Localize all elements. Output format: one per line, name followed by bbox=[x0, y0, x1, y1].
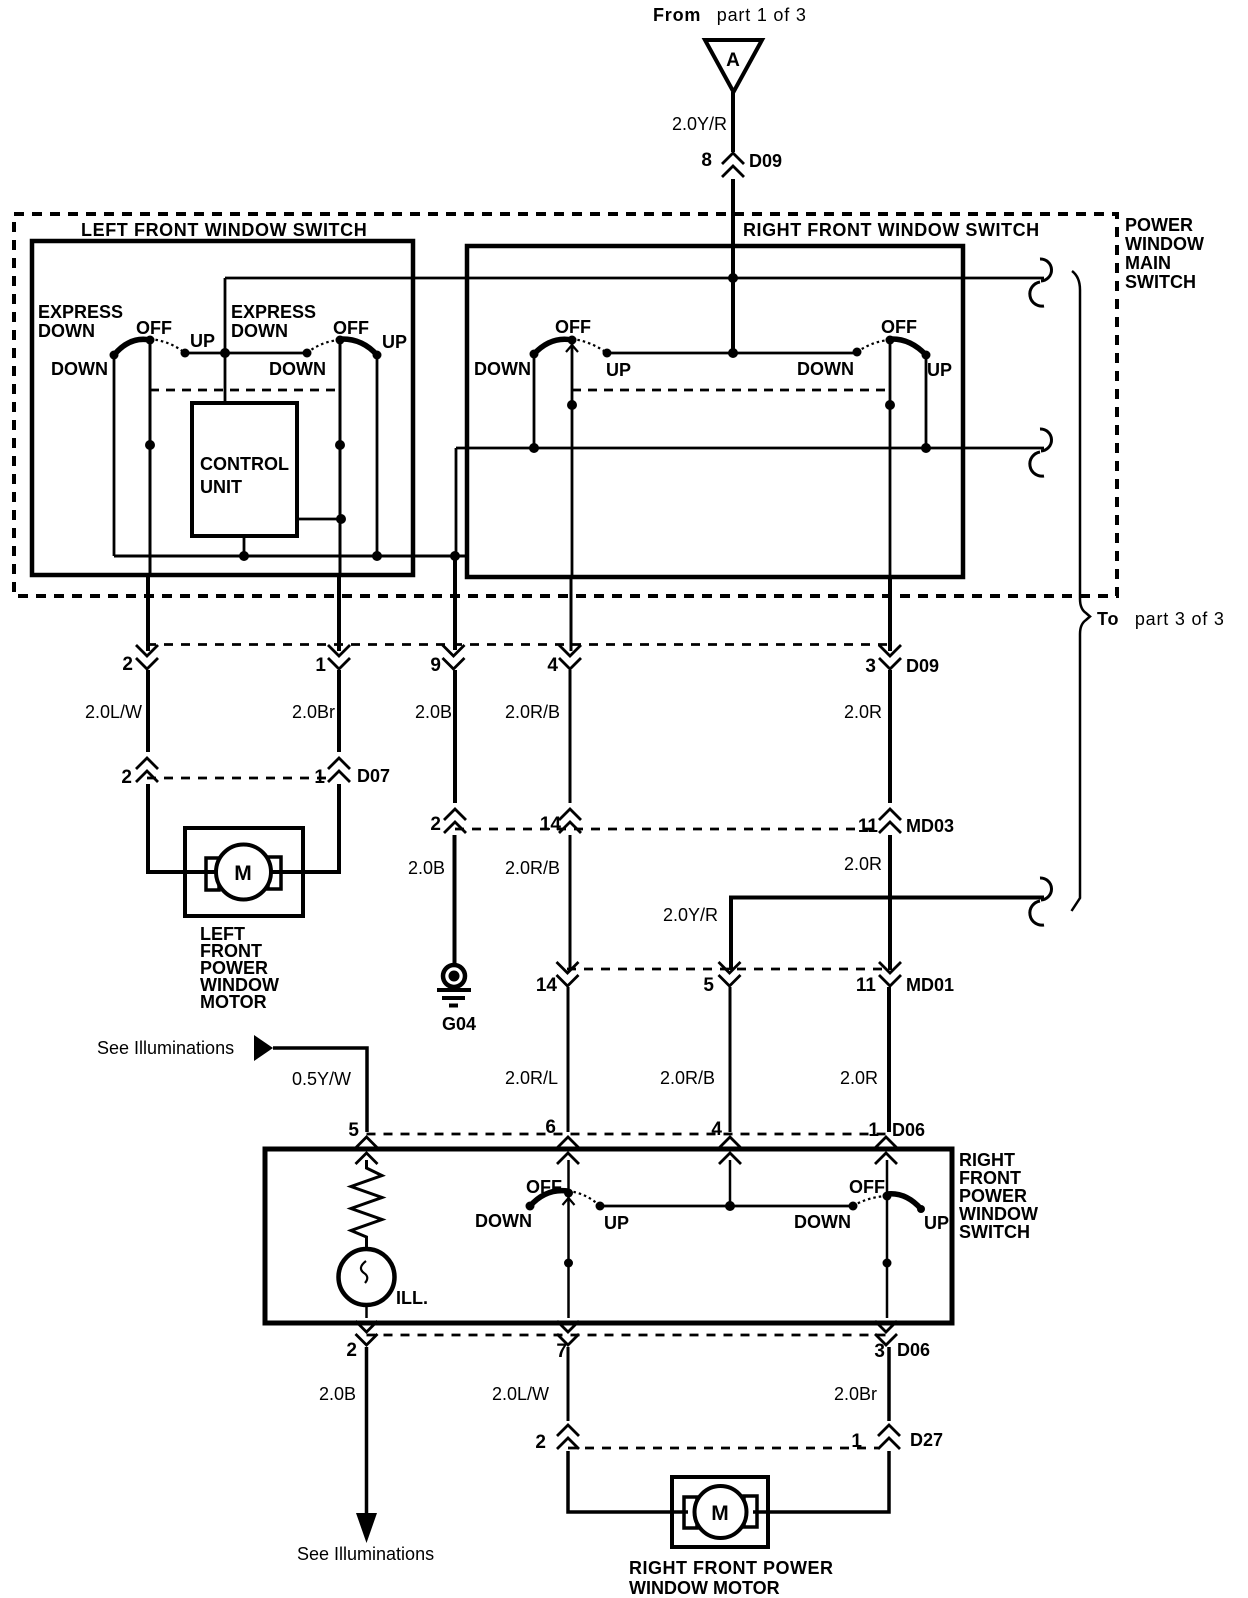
wire pin2 (2.0L/W) bbox=[146, 575, 150, 651]
svg-text:14: 14 bbox=[540, 814, 562, 835]
svg-text:UP: UP bbox=[927, 360, 952, 380]
wire left pole pin6 to pin7 bbox=[567, 1160, 570, 1318]
svg-text:2: 2 bbox=[121, 767, 132, 788]
wire 2.0R MD01 to switch pin1 bbox=[887, 987, 891, 1132]
connector row MD03 bbox=[444, 809, 901, 833]
svg-text:2.0R/B: 2.0R/B bbox=[660, 1068, 715, 1088]
svg-text:RIGHT: RIGHT bbox=[959, 1150, 1015, 1170]
power window main switch dashed border bbox=[14, 214, 1117, 596]
svg-text:14: 14 bbox=[536, 975, 558, 996]
connector D09 pin 8 chevrons bbox=[722, 153, 744, 177]
svg-text:WINDOW: WINDOW bbox=[1125, 234, 1204, 254]
wire pin 4 drop bbox=[729, 1160, 732, 1206]
svg-text:D06: D06 bbox=[897, 1340, 930, 1360]
svg-text:2.0B: 2.0B bbox=[319, 1384, 356, 1404]
svg-text:From part 1 of 3: From part 1 of 3 bbox=[653, 5, 807, 25]
connector row D06 (bottom of switch) bbox=[356, 1321, 898, 1345]
svg-text:3: 3 bbox=[865, 656, 876, 677]
svg-text:D09: D09 bbox=[906, 656, 939, 676]
wire D07 pin2 to motor bbox=[148, 784, 216, 872]
node control-right junction bbox=[336, 514, 346, 524]
wire switch2 UP contact to ground bus bbox=[376, 355, 379, 556]
wire right-box left switch pole down to pin 4 bbox=[571, 340, 574, 577]
svg-text:2.0L/W: 2.0L/W bbox=[85, 702, 142, 722]
ground bus wire in left switch box bbox=[114, 555, 466, 558]
svg-text:DOWN: DOWN bbox=[38, 321, 95, 341]
svg-text:D07: D07 bbox=[357, 766, 390, 786]
connector A (from part 1) triangle bbox=[705, 40, 762, 92]
svg-text:G04: G04 bbox=[442, 1014, 476, 1034]
svg-text:See Illuminations: See Illuminations bbox=[297, 1544, 434, 1564]
svg-text:M: M bbox=[234, 862, 252, 885]
svg-text:DOWN: DOWN bbox=[51, 359, 108, 379]
illumination feed arrow bbox=[254, 1035, 273, 1061]
wire from D09 pin8 into main switch bbox=[731, 179, 735, 353]
wire left switch DOWN contact to lower bus bbox=[533, 354, 536, 448]
node on switch2 pole bbox=[335, 440, 345, 450]
svg-text:2: 2 bbox=[535, 1432, 546, 1453]
node left pole bbox=[564, 1259, 573, 1268]
svg-text:To part 3 of 3: To part 3 of 3 bbox=[1097, 609, 1225, 629]
svg-text:2.0R/B: 2.0R/B bbox=[505, 702, 560, 722]
svg-text:2.0Y/R: 2.0Y/R bbox=[663, 905, 718, 925]
wire ground column from lower bus bbox=[455, 448, 458, 556]
node on switch1 pole bbox=[145, 440, 155, 450]
svg-text:2.0B: 2.0B bbox=[408, 858, 445, 878]
wire feed down to left switch assembly bbox=[224, 278, 227, 403]
svg-text:FRONT: FRONT bbox=[959, 1168, 1021, 1188]
control unit box bbox=[192, 403, 297, 536]
svg-text:3: 3 bbox=[874, 1341, 885, 1362]
svg-text:OFF: OFF bbox=[881, 317, 917, 337]
svg-text:MOTOR: MOTOR bbox=[200, 992, 267, 1012]
wire 2.0L/W to D07 bbox=[146, 670, 150, 752]
svg-text:2.0R/L: 2.0R/L bbox=[505, 1068, 558, 1088]
svg-text:RIGHT FRONT POWER: RIGHT FRONT POWER bbox=[629, 1558, 834, 1578]
wire 0.5Y/W illumination feed bbox=[273, 1048, 367, 1132]
svg-text:MD01: MD01 bbox=[906, 975, 954, 995]
right box left switch rocker bbox=[530, 336, 612, 359]
svg-text:OFF: OFF bbox=[136, 318, 172, 338]
svg-text:MD03: MD03 bbox=[906, 816, 954, 836]
svg-text:SWITCH: SWITCH bbox=[1125, 272, 1196, 292]
svg-text:RIGHT FRONT WINDOW SWITCH: RIGHT FRONT WINDOW SWITCH bbox=[743, 220, 1040, 240]
svg-text:8: 8 bbox=[701, 150, 712, 171]
resistor (illumination dropping) bbox=[351, 1160, 382, 1249]
svg-text:1: 1 bbox=[314, 767, 325, 788]
node DOWN/bus bbox=[529, 443, 539, 453]
svg-text:4: 4 bbox=[547, 655, 558, 676]
wire D27 pin1 to right motor bbox=[753, 1451, 889, 1512]
mechanical linkage right box switches bbox=[572, 389, 890, 392]
right front power window switch box bbox=[265, 1149, 952, 1323]
wire 2.0R MD03 to MD01 bbox=[888, 835, 892, 970]
svg-text:DOWN: DOWN bbox=[231, 321, 288, 341]
switch 2 (express down) rocker bbox=[303, 336, 382, 360]
node junction feed bbox=[220, 348, 230, 358]
svg-text:11: 11 bbox=[858, 816, 879, 837]
svg-text:A: A bbox=[726, 50, 740, 71]
wire right-box right switch pole down to pin 3 bbox=[889, 340, 892, 577]
svg-text:DOWN: DOWN bbox=[269, 359, 326, 379]
svg-text:5: 5 bbox=[703, 975, 714, 996]
wire right pole pin1 to pin3 bbox=[886, 1160, 889, 1318]
svg-text:POWER: POWER bbox=[1125, 215, 1193, 235]
left front power window motor bbox=[185, 828, 303, 916]
wire 2.0Br to D27 bbox=[887, 1347, 891, 1421]
wire continuation curl (middle) bbox=[1040, 429, 1052, 451]
wire right switch UP contact to lower bus bbox=[925, 355, 928, 448]
right box right switch rocker bbox=[853, 336, 931, 360]
svg-text:2.0R: 2.0R bbox=[844, 702, 882, 722]
wire bus from A junction across top (to part 3 curl) bbox=[225, 277, 1044, 280]
wire switch1 DOWN contact to ground bus bbox=[113, 355, 116, 556]
connector row D07 bbox=[136, 758, 350, 782]
svg-text:WINDOW: WINDOW bbox=[959, 1204, 1038, 1224]
wire control unit right pin to switch2 pole bbox=[297, 518, 341, 521]
svg-text:UP: UP bbox=[606, 360, 631, 380]
wire D07 pin1 to motor bbox=[271, 784, 339, 872]
wire control unit bottom pin bbox=[243, 536, 246, 556]
svg-text:DOWN: DOWN bbox=[794, 1212, 851, 1232]
wire 2.0Y/R from A to D09 pin 8 bbox=[731, 92, 735, 152]
wire 2.0R/B MD03 to MD01 bbox=[569, 835, 572, 970]
connector row D06 (top of right front power window switch) bbox=[356, 1134, 898, 1164]
switch 1 (express down) rocker bbox=[110, 336, 190, 360]
node ground-bus to 2.0B column bbox=[450, 551, 460, 561]
node UP/bus bbox=[921, 443, 931, 453]
wire continuation curl (2.0Y/R) bbox=[1040, 878, 1051, 900]
wire 2.0B to MD03 bbox=[453, 670, 457, 803]
svg-text:DOWN: DOWN bbox=[474, 359, 531, 379]
connector row D27 bbox=[557, 1425, 900, 1449]
brace to part 3 of 3 bbox=[1072, 271, 1091, 911]
svg-text:SWITCH: SWITCH bbox=[959, 1222, 1030, 1242]
wire 2.0B to see illuminations arrow bbox=[365, 1347, 369, 1514]
svg-text:2: 2 bbox=[430, 814, 441, 835]
svg-text:MAIN: MAIN bbox=[1125, 253, 1171, 273]
svg-text:CONTROL: CONTROL bbox=[200, 454, 289, 474]
wire 2.0Y/R from part-3 curl to MD01 pin 5 bbox=[731, 898, 1044, 971]
svg-text:2.0Br: 2.0Br bbox=[292, 702, 335, 722]
wire 2.0B to ground bbox=[453, 835, 457, 963]
svg-text:7: 7 bbox=[556, 1341, 567, 1362]
wire pin4 (2.0R/B) bbox=[570, 577, 573, 651]
wire D27 pin2 to right motor bbox=[568, 1451, 688, 1512]
wire switch2 pole down (2.0Br) bbox=[339, 340, 342, 575]
svg-text:OFF: OFF bbox=[333, 318, 369, 338]
node right pole bbox=[883, 1259, 892, 1268]
svg-text:DOWN: DOWN bbox=[475, 1211, 532, 1231]
wire lamp to pin 2 bbox=[365, 1305, 368, 1318]
svg-text:POWER: POWER bbox=[959, 1186, 1027, 1206]
node pin4 junction bbox=[725, 1201, 735, 1211]
wire 2.0R/L MD01 to switch pin6 bbox=[567, 987, 570, 1132]
wire pin3 (2.0R) bbox=[888, 577, 892, 651]
ground G04 bbox=[437, 965, 471, 1006]
svg-text:D09: D09 bbox=[749, 151, 782, 171]
wire pin1 (2.0Br) bbox=[337, 575, 341, 651]
wire 2.0Br to D07 bbox=[337, 670, 341, 752]
illumination lamp ILL bbox=[339, 1249, 395, 1305]
svg-text:2: 2 bbox=[122, 654, 133, 675]
svg-text:0.5Y/W: 0.5Y/W bbox=[292, 1069, 351, 1089]
svg-text:2.0L/W: 2.0L/W bbox=[492, 1384, 549, 1404]
svg-text:D27: D27 bbox=[910, 1430, 943, 1450]
svg-text:2.0Y/R: 2.0Y/R bbox=[672, 114, 727, 134]
node left pole bbox=[567, 400, 577, 410]
svg-text:UNIT: UNIT bbox=[200, 477, 242, 497]
svg-text:1: 1 bbox=[315, 655, 326, 676]
svg-text:UP: UP bbox=[604, 1213, 629, 1233]
svg-text:1: 1 bbox=[851, 1431, 862, 1452]
power switch left rocker bbox=[526, 1189, 605, 1211]
svg-text:M: M bbox=[711, 1502, 729, 1525]
node junction A-bus bbox=[728, 273, 738, 283]
power switch right rocker bbox=[849, 1192, 926, 1214]
svg-text:4: 4 bbox=[711, 1119, 722, 1140]
connector row MD01 bbox=[557, 962, 902, 986]
svg-text:OFF: OFF bbox=[849, 1177, 885, 1197]
connector row D09 bbox=[136, 645, 901, 670]
svg-text:DOWN: DOWN bbox=[797, 359, 854, 379]
wire bridge UP-left to DOWN-right with pin4 tap bbox=[600, 1205, 853, 1208]
node bridge junction bbox=[728, 348, 738, 358]
svg-text:ILL.: ILL. bbox=[396, 1288, 428, 1308]
wire A junction down to right switches bridge bbox=[607, 352, 857, 355]
svg-text:LEFT FRONT WINDOW SWITCH: LEFT FRONT WINDOW SWITCH bbox=[81, 220, 367, 240]
svg-text:5: 5 bbox=[348, 1120, 359, 1141]
svg-text:6: 6 bbox=[545, 1117, 556, 1138]
wire 2.0R to MD03 bbox=[888, 670, 892, 803]
svg-text:2.0R: 2.0R bbox=[840, 1068, 878, 1088]
svg-text:WINDOW MOTOR: WINDOW MOTOR bbox=[629, 1578, 780, 1598]
svg-text:UP: UP bbox=[924, 1213, 949, 1233]
svg-text:2.0R: 2.0R bbox=[844, 854, 882, 874]
wire switch1 pole down (2.0L/W) bbox=[149, 340, 152, 575]
wire switch1 UP to switch2 DOWN bbox=[185, 352, 307, 355]
wire 2.0R/B MD01 to switch pin4 bbox=[729, 987, 732, 1132]
svg-text:1: 1 bbox=[868, 1120, 879, 1141]
svg-text:See Illuminations: See Illuminations bbox=[97, 1038, 234, 1058]
svg-text:11: 11 bbox=[856, 975, 877, 996]
right front power window motor bbox=[672, 1477, 768, 1547]
node switch2-up/bus bbox=[372, 551, 382, 561]
see illuminations arrowhead bbox=[356, 1513, 377, 1543]
svg-text:2.0Br: 2.0Br bbox=[834, 1384, 877, 1404]
svg-text:EXPRESS: EXPRESS bbox=[38, 302, 123, 322]
svg-text:UP: UP bbox=[190, 331, 215, 351]
lower bus wire (to part 3 curl) bbox=[456, 447, 1044, 450]
right front window switch box bbox=[467, 246, 963, 577]
left front window switch box bbox=[32, 241, 413, 575]
svg-text:2.0B: 2.0B bbox=[415, 702, 452, 722]
node control-bottom junction bbox=[239, 551, 249, 561]
svg-text:2.0R/B: 2.0R/B bbox=[505, 858, 560, 878]
svg-text:9: 9 bbox=[430, 655, 441, 676]
svg-text:OFF: OFF bbox=[555, 317, 591, 337]
svg-text:2: 2 bbox=[346, 1340, 357, 1361]
wire 2.0R/B to MD03 bbox=[569, 670, 572, 803]
svg-text:UP: UP bbox=[382, 332, 407, 352]
mechanical linkage switch1-switch2 bbox=[150, 389, 340, 392]
svg-text:EXPRESS: EXPRESS bbox=[231, 302, 316, 322]
wire continuation curl (top) bbox=[1040, 259, 1052, 281]
svg-text:D06: D06 bbox=[892, 1120, 925, 1140]
node right pole bbox=[885, 400, 895, 410]
wire 2.0L/W to D27 bbox=[567, 1347, 570, 1421]
